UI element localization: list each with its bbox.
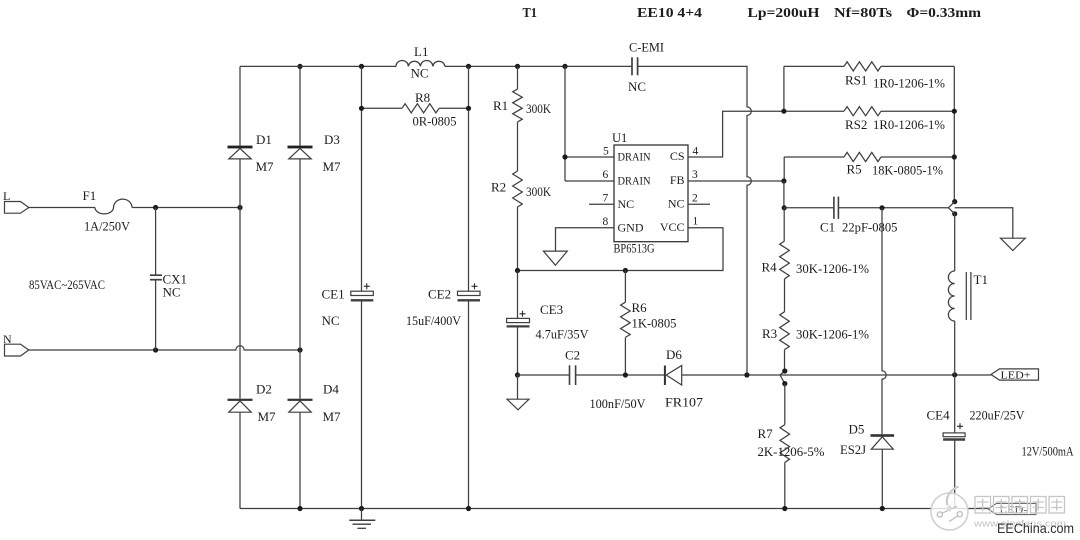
capacitor CX1	[155, 208, 157, 276]
wire bridge right leg bottom	[299, 412, 301, 508]
wire CE3 bottom	[517, 327, 519, 375]
node bridge top D3	[297, 64, 302, 69]
svg-text:300K: 300K	[526, 101, 552, 116]
svg-text:T1: T1	[974, 272, 988, 287]
svg-text:NC: NC	[618, 197, 635, 211]
node R8 right	[466, 106, 471, 111]
svg-text:L: L	[3, 189, 10, 203]
diode D2	[228, 399, 253, 401]
capacitor CE4	[954, 375, 956, 433]
diode D4	[288, 399, 313, 401]
node rail D5	[880, 506, 885, 511]
svg-text:FB: FB	[670, 173, 685, 187]
svg-text:RS2: RS2	[845, 117, 867, 132]
svg-text:CE3: CE3	[540, 302, 563, 317]
svg-text:ES2J: ES2J	[840, 442, 866, 457]
svg-text:C-EMI: C-EMI	[629, 40, 664, 55]
svg-text:NC: NC	[163, 285, 181, 300]
node rail R7	[782, 506, 787, 511]
wire C2 to D6	[576, 374, 664, 376]
wire RS right vertical	[953, 66, 955, 201]
capacitor C2	[518, 374, 570, 376]
resistor R5	[783, 157, 785, 181]
node RS2 right	[952, 109, 957, 114]
svg-text:VCC: VCC	[660, 220, 685, 234]
svg-text:100nF/50V: 100nF/50V	[590, 396, 647, 411]
terminal LED-	[988, 503, 1036, 514]
svg-text:1R0-1206-1%: 1R0-1206-1%	[873, 76, 945, 91]
wire CE2 vertical lower	[468, 301, 470, 509]
diode D6	[664, 366, 666, 386]
wire bridge left leg top	[239, 66, 241, 145]
svg-text:6: 6	[603, 169, 609, 181]
wire R3 bottom jog	[780, 350, 785, 384]
node jog lower	[952, 211, 957, 216]
node RS2 left CS junction	[781, 109, 786, 114]
svg-text:L1: L1	[414, 44, 428, 59]
svg-text:30K-1206-1%: 30K-1206-1%	[796, 261, 869, 276]
wire top rail right of L1	[445, 65, 632, 67]
wire CE1 vertical upper	[361, 66, 363, 291]
wire T1 bottom	[954, 321, 956, 375]
node rail CE2	[466, 506, 471, 511]
node N-bridge junction	[297, 347, 302, 352]
node R6 top	[623, 268, 628, 273]
svg-text:D1: D1	[256, 132, 272, 147]
svg-text:M7: M7	[258, 409, 277, 424]
watermark logo circle	[931, 493, 968, 530]
wire RS1 left vertical	[783, 66, 785, 111]
wire D5 vertical with hop	[882, 208, 886, 434]
capacitor C-EMI	[631, 57, 633, 75]
wire C2 row ground stub	[517, 375, 519, 399]
svg-text:85VAC~265VAC: 85VAC~265VAC	[29, 277, 105, 292]
wire CE2 vertical upper	[468, 66, 470, 291]
resistor R8	[362, 107, 403, 109]
wire pin2 stub	[688, 203, 710, 205]
svg-text:300K: 300K	[526, 184, 552, 199]
wire CE4 bottom	[954, 440, 956, 509]
wire T1 top	[954, 214, 956, 271]
node C2 row left	[515, 372, 520, 377]
svg-text:LED+: LED+	[1001, 371, 1031, 382]
svg-text:U1: U1	[612, 131, 627, 145]
wire pin7 stub	[589, 203, 614, 205]
svg-text:CE1: CE1	[322, 287, 345, 302]
node R8 left	[359, 106, 364, 111]
node FB junction	[781, 178, 786, 183]
svg-text:D6: D6	[666, 347, 682, 362]
svg-text:CE2: CE2	[428, 287, 451, 302]
node LED+ row T1	[952, 372, 957, 377]
op-amp U1 BP6513G body	[614, 145, 688, 242]
svg-text:DRAIN: DRAIN	[618, 174, 651, 188]
svg-text:4: 4	[693, 146, 699, 158]
watermark hanzi text	[975, 497, 991, 514]
diode D1	[228, 146, 253, 149]
svg-text:R2: R2	[491, 180, 506, 195]
svg-text:D5: D5	[849, 422, 865, 437]
svg-text:R7: R7	[758, 426, 774, 441]
ground C2 row	[507, 399, 529, 410]
svg-text:CS: CS	[670, 149, 685, 163]
wire R1-R2	[517, 122, 519, 171]
node rail D4	[297, 506, 302, 511]
svg-text:5: 5	[603, 146, 609, 158]
svg-text:C2: C2	[565, 348, 580, 363]
diode D3	[288, 146, 313, 149]
ground earth symbol	[361, 509, 363, 520]
node L-bridge junction	[237, 205, 242, 210]
svg-text:NC: NC	[628, 79, 646, 94]
wire N row with hop over bridge leg	[29, 346, 300, 350]
svg-text:C1: C1	[820, 220, 835, 235]
svg-text:3: 3	[692, 169, 698, 181]
wire to right ground	[955, 208, 1013, 239]
svg-text:R3: R3	[762, 326, 777, 341]
capacitor CE1	[351, 291, 374, 295]
svg-text:CE4: CE4	[927, 408, 951, 423]
resistor RS2	[784, 110, 844, 112]
node C1 left	[782, 205, 787, 210]
svg-text:EE10 4+4: EE10 4+4	[637, 6, 702, 21]
svg-text:R6: R6	[632, 300, 648, 315]
resistor R7	[784, 384, 786, 425]
transformer T1 core	[966, 272, 971, 320]
node CE1 top	[359, 64, 364, 69]
svg-text:T1: T1	[523, 6, 538, 21]
svg-text:1A/250V: 1A/250V	[84, 219, 131, 234]
wire bridge right leg middle	[299, 159, 301, 399]
svg-text:Nf=80Ts: Nf=80Ts	[834, 6, 893, 21]
ground U1 GND	[543, 251, 567, 265]
node C1 right D5 top	[879, 205, 884, 210]
svg-text:4.7uF/35V: 4.7uF/35V	[536, 327, 590, 342]
svg-text:NC: NC	[668, 196, 685, 210]
node jog upper	[952, 199, 957, 204]
wire L row left	[29, 207, 95, 209]
node jog R7	[782, 381, 787, 386]
svg-text:F1: F1	[83, 188, 97, 203]
svg-text:18K-0805-1%: 18K-0805-1%	[872, 163, 943, 178]
wire pin4 CS run	[688, 111, 784, 157]
wire bridge right leg top	[299, 66, 301, 145]
svg-text:30K-1206-1%: 30K-1206-1%	[796, 327, 869, 342]
svg-text:DRAIN: DRAIN	[618, 150, 651, 164]
node L-CX1 junction	[153, 205, 158, 210]
wire pin1 VCC run	[518, 228, 724, 271]
transformer T1 winding	[948, 271, 954, 321]
wire pin5 stub	[565, 156, 614, 158]
node jog R3	[782, 368, 787, 373]
resistor R3	[780, 312, 790, 350]
svg-text:1: 1	[693, 216, 699, 228]
svg-text:D4: D4	[323, 382, 339, 397]
svg-text:BP6513G: BP6513G	[614, 242, 655, 256]
svg-text:15uF/400V: 15uF/400V	[406, 313, 462, 328]
node CE2 top	[466, 64, 471, 69]
wire D6 row to LED+	[682, 374, 991, 376]
node R5 right	[952, 154, 957, 159]
svg-text:RS1: RS1	[845, 73, 867, 88]
capacitor C1	[784, 207, 833, 209]
svg-text:N: N	[3, 332, 12, 346]
svg-text:1R0-1206-1%: 1R0-1206-1%	[873, 117, 945, 132]
svg-text:M7: M7	[256, 159, 275, 174]
svg-text:Lp=200uH: Lp=200uH	[748, 6, 820, 21]
svg-text:EEChina.com: EEChina.com	[997, 521, 1074, 536]
svg-text:R4: R4	[762, 260, 778, 275]
wire bridge left leg middle	[239, 159, 241, 399]
svg-text:NC: NC	[411, 66, 429, 81]
wire CE1 vertical lower	[361, 301, 363, 509]
svg-text:LED-: LED-	[1000, 505, 1028, 516]
wire top rail right segment and drop with hops	[638, 66, 752, 375]
node drain branch top	[562, 64, 567, 69]
node pin5 junction	[562, 154, 567, 159]
wire top rail left of L1	[240, 65, 396, 67]
wire pin3 FB run	[688, 180, 784, 182]
svg-text:M7: M7	[323, 159, 342, 174]
diode D5	[871, 434, 895, 437]
wire FB chain down	[783, 181, 785, 208]
ground right	[1001, 238, 1026, 250]
resistor R2	[513, 171, 523, 207]
svg-text:22pF-0805: 22pF-0805	[842, 220, 898, 235]
svg-text:2K-1206-5%: 2K-1206-5%	[758, 444, 825, 459]
resistor RS1	[784, 65, 844, 67]
svg-text:8: 8	[603, 216, 609, 228]
wire bottom rail	[240, 508, 988, 510]
terminal L	[5, 202, 29, 214]
node D6 drain junction	[744, 372, 749, 377]
svg-text:GND: GND	[618, 221, 644, 235]
terminal N	[5, 344, 29, 356]
wire L row right	[132, 207, 240, 209]
capacitor CE2	[458, 291, 481, 295]
terminal LED+	[991, 369, 1039, 380]
resistor R4	[783, 208, 785, 241]
wire drain vertical	[564, 66, 566, 181]
svg-text:FR107: FR107	[665, 395, 704, 410]
svg-text:R5: R5	[847, 162, 862, 177]
inductor L1	[396, 61, 445, 67]
svg-text:220uF/25V: 220uF/25V	[970, 408, 1026, 423]
wire bridge left leg bottom	[239, 412, 241, 508]
node N-CX1 junction	[153, 347, 158, 352]
resistor R1	[517, 66, 519, 89]
svg-text:R1: R1	[493, 98, 508, 113]
svg-text:12V/500mA: 12V/500mA	[1022, 445, 1074, 459]
svg-text:7: 7	[603, 193, 609, 205]
wire R4-R3	[784, 279, 786, 312]
wire pin8 GND run	[556, 228, 615, 251]
node rail CE1	[359, 506, 364, 511]
wire R2 to VCC node	[517, 207, 519, 271]
svg-text:2: 2	[692, 193, 698, 205]
wire jog diagonals	[949, 202, 955, 214]
node R1 top	[515, 64, 520, 69]
fuse F1	[95, 199, 132, 214]
svg-text:Φ=0.33mm: Φ=0.33mm	[907, 6, 982, 21]
wire D5 bottom	[881, 449, 883, 508]
resistor R6	[624, 271, 626, 303]
svg-text:1K-0805: 1K-0805	[632, 316, 677, 331]
capacitor CE3	[517, 271, 519, 319]
wire pin6 stub	[565, 180, 614, 182]
svg-text:M7: M7	[323, 409, 342, 424]
node VCC row left CE3 top	[515, 268, 520, 273]
node R6 bottom	[623, 372, 628, 377]
svg-text:D2: D2	[256, 382, 272, 397]
svg-text:D3: D3	[324, 132, 340, 147]
svg-text:0R-0805: 0R-0805	[413, 114, 457, 129]
svg-text:R8: R8	[415, 90, 430, 105]
svg-text:NC: NC	[322, 313, 340, 328]
